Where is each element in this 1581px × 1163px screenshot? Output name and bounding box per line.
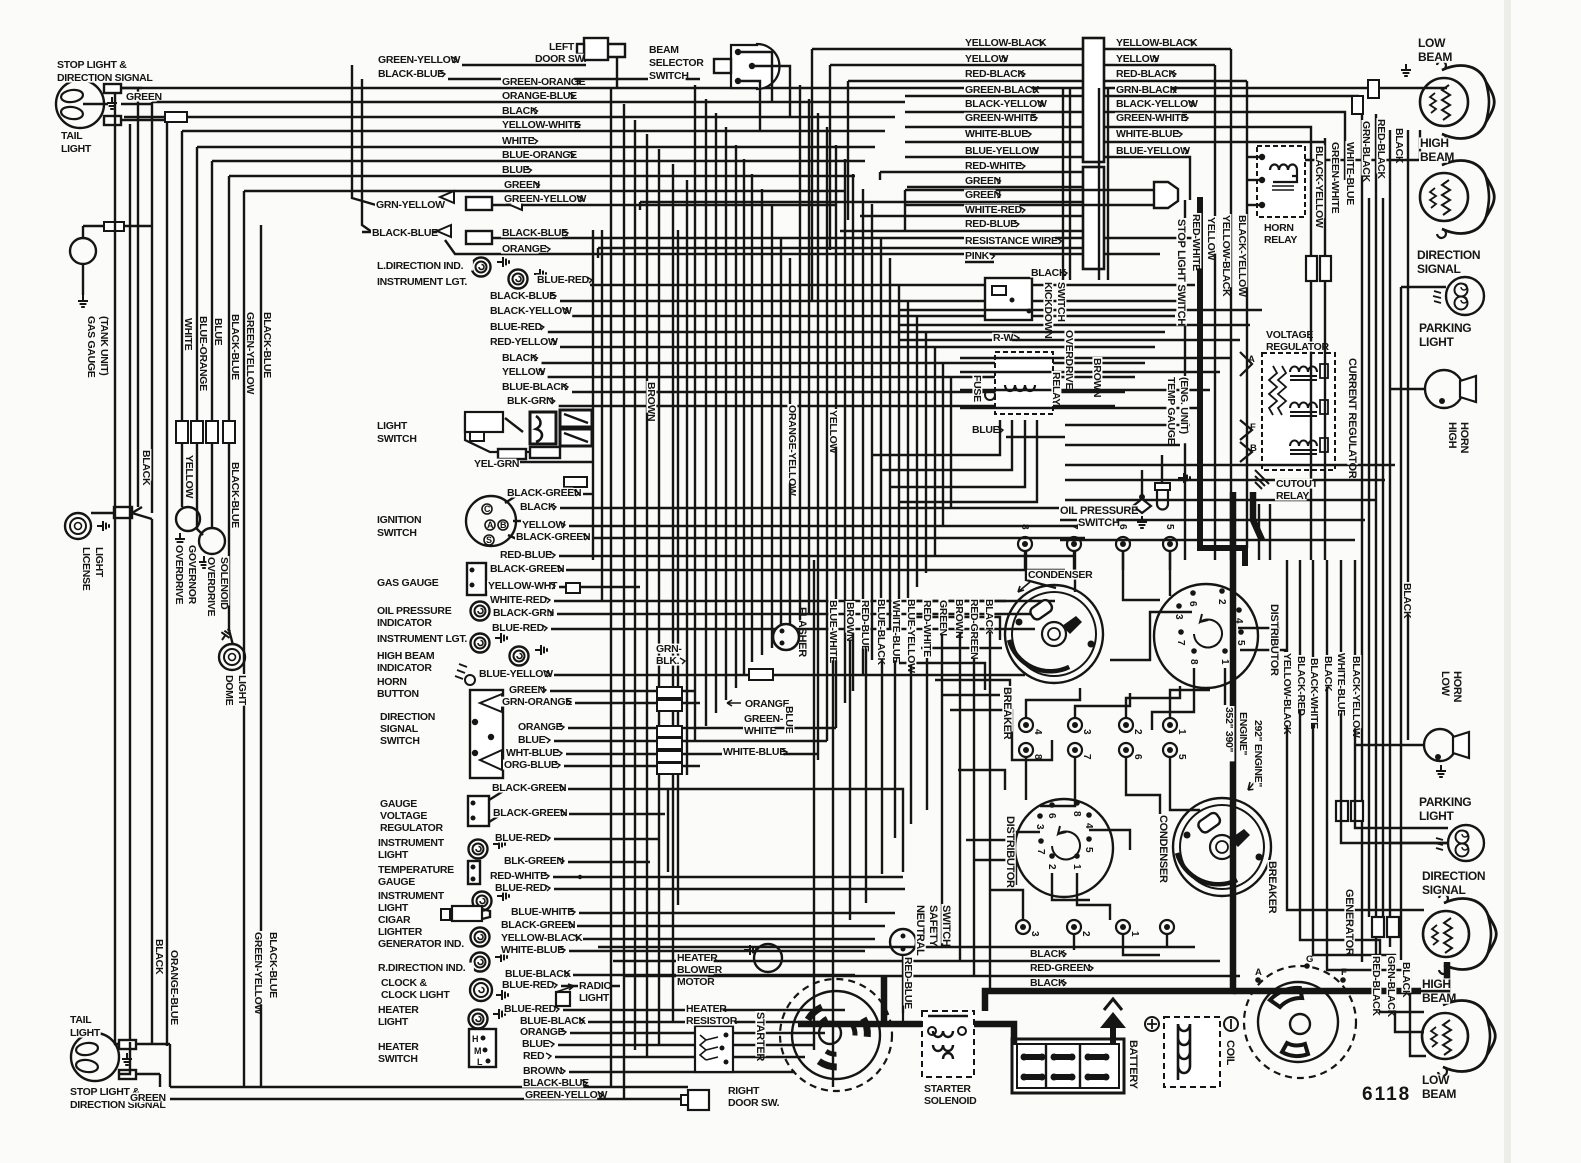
svg-text:WHITE-BLUE: WHITE-BLUE [890, 600, 902, 663]
svg-text:BLACK: BLACK [502, 105, 538, 117]
svg-text:YELLOW-BLACK: YELLOW-BLACK [1220, 215, 1232, 297]
svg-text:GRN-BLACK: GRN-BLACK [1360, 121, 1372, 183]
svg-text:ORANGE-BLUE: ORANGE-BLUE [502, 90, 577, 102]
svg-text:BLK-GRN: BLK-GRN [507, 395, 553, 407]
svg-text:OVERDRIVE: OVERDRIVE [1063, 330, 1075, 389]
svg-text:RED-BLUE: RED-BLUE [500, 549, 552, 561]
svg-text:YELLOW: YELLOW [1205, 217, 1217, 261]
svg-text:ENGINE": ENGINE" [1237, 712, 1249, 755]
svg-text:B: B [1250, 443, 1257, 454]
svg-text:OIL PRESSURE: OIL PRESSURE [1060, 505, 1138, 517]
svg-text:YELLOW: YELLOW [827, 410, 839, 454]
svg-text:BLACK-WHITE: BLACK-WHITE [1308, 658, 1320, 729]
svg-text:DOOR SW.: DOOR SW. [535, 53, 587, 65]
svg-text:(ENG. UNIT): (ENG. UNIT) [1178, 377, 1190, 434]
svg-text:LIGHT: LIGHT [378, 902, 409, 914]
svg-text:DOOR SW.: DOOR SW. [728, 1097, 780, 1109]
svg-text:BATTERY: BATTERY [1127, 1040, 1139, 1090]
svg-text:YELLOW: YELLOW [502, 366, 546, 378]
svg-text:GREEN: GREEN [126, 91, 162, 103]
svg-text:REGULATOR: REGULATOR [380, 822, 444, 834]
svg-text:GREEN-WHITE: GREEN-WHITE [965, 112, 1037, 124]
svg-text:L: L [477, 1057, 483, 1067]
svg-text:YELLOW: YELLOW [965, 53, 1009, 65]
svg-text:BLUE-RED: BLUE-RED [495, 882, 548, 894]
svg-text:SWITCH: SWITCH [377, 433, 417, 445]
svg-text:GREEN: GREEN [965, 175, 1001, 187]
svg-text:HIGH BEAM: HIGH BEAM [377, 650, 435, 662]
svg-text:OIL PRESSURE: OIL PRESSURE [377, 605, 452, 617]
svg-text:LIGHT: LIGHT [61, 143, 92, 155]
svg-text:YELLOW-BLACK: YELLOW-BLACK [1116, 37, 1198, 49]
svg-text:GAUGE: GAUGE [378, 876, 415, 888]
svg-text:STOP LIGHT &: STOP LIGHT & [57, 59, 127, 71]
svg-text:BLACK-BLUE: BLACK-BLUE [502, 227, 568, 239]
svg-text:STARTER: STARTER [924, 1083, 971, 1095]
svg-text:6: 6 [1046, 813, 1057, 819]
svg-text:BLACK-GREEN: BLACK-GREEN [516, 531, 590, 543]
svg-text:OVERDRIVE: OVERDRIVE [173, 545, 185, 604]
svg-text:HORN: HORN [1264, 222, 1294, 234]
svg-text:7: 7 [1035, 849, 1046, 855]
svg-text:GREEN-WHITE: GREEN-WHITE [1329, 142, 1341, 214]
svg-text:RED-GREEN: RED-GREEN [968, 599, 980, 659]
svg-text:GREEN-YELLOW: GREEN-YELLOW [252, 932, 264, 1015]
svg-text:BEAM: BEAM [1422, 991, 1456, 1005]
svg-text:LIGHT: LIGHT [70, 1027, 101, 1039]
svg-text:7: 7 [1081, 754, 1092, 760]
svg-text:RED-BLACK: RED-BLACK [965, 68, 1025, 80]
svg-text:BROWN: BROWN [953, 599, 965, 638]
svg-text:YELLOW-BLACK: YELLOW-BLACK [965, 37, 1047, 49]
svg-text:VOLTAGE: VOLTAGE [380, 810, 427, 822]
svg-text:BLACK-BLUE: BLACK-BLUE [267, 932, 279, 998]
svg-text:RESISTOR: RESISTOR [686, 1015, 738, 1027]
svg-text:S: S [486, 535, 492, 545]
svg-text:SOLENOID: SOLENOID [924, 1095, 977, 1107]
svg-text:2: 2 [1216, 599, 1227, 605]
svg-text:BLUE: BLUE [212, 318, 224, 346]
svg-text:SIGNAL: SIGNAL [1417, 262, 1461, 276]
svg-text:RED-WHITE: RED-WHITE [1190, 214, 1202, 271]
svg-text:GREEN: GREEN [130, 1092, 166, 1104]
svg-text:LOW: LOW [1422, 1073, 1450, 1087]
svg-text:GRN-YELLOW: GRN-YELLOW [376, 199, 445, 211]
svg-text:GREEN-YELLOW: GREEN-YELLOW [244, 312, 256, 395]
svg-text:BREAKER: BREAKER [1001, 687, 1013, 740]
svg-text:DIRECTION: DIRECTION [1422, 869, 1485, 883]
svg-text:GREEN-: GREEN- [744, 713, 784, 725]
svg-text:RED-BLUE: RED-BLUE [859, 600, 871, 652]
svg-text:H: H [472, 1034, 478, 1044]
svg-text:STARTER: STARTER [754, 1012, 766, 1061]
svg-text:BEAM: BEAM [1420, 150, 1454, 164]
svg-text:RELAY: RELAY [1264, 234, 1297, 246]
svg-text:RED-WHITE: RED-WHITE [921, 600, 933, 657]
svg-text:LIGHT: LIGHT [378, 849, 409, 861]
svg-text:ORG-BLUE: ORG-BLUE [504, 759, 558, 771]
svg-text:VOLTAGE: VOLTAGE [1266, 329, 1313, 341]
svg-text:INDICATOR: INDICATOR [377, 617, 432, 629]
svg-text:WHITE-BLUE: WHITE-BLUE [965, 128, 1028, 140]
svg-text:WHITE: WHITE [502, 135, 535, 147]
svg-text:BLUE-RED: BLUE-RED [492, 622, 545, 634]
svg-text:BREAKER: BREAKER [1266, 861, 1278, 914]
svg-text:COIL: COIL [1224, 1040, 1236, 1066]
svg-text:A: A [1248, 354, 1255, 365]
svg-text:LIGHTER: LIGHTER [378, 926, 423, 938]
svg-text:GRN-ORANGE: GRN-ORANGE [502, 696, 572, 708]
svg-text:CONDENSER: CONDENSER [1157, 815, 1169, 883]
svg-text:8: 8 [1071, 811, 1082, 817]
svg-text:GRN-: GRN- [656, 643, 682, 655]
svg-text:BLUE-RED: BLUE-RED [495, 832, 548, 844]
svg-text:RELAY: RELAY [1050, 372, 1062, 405]
svg-text:RESISTANCE WIRE: RESISTANCE WIRE [965, 235, 1058, 247]
svg-text:GENERATOR IND.: GENERATOR IND. [378, 938, 464, 950]
svg-text:GREEN-ORANGE: GREEN-ORANGE [502, 76, 586, 88]
svg-text:WHITE-BLUE: WHITE-BLUE [501, 944, 564, 956]
svg-text:SAFETY: SAFETY [927, 905, 939, 948]
svg-text:LIGHT: LIGHT [378, 1016, 409, 1028]
svg-text:ORANGE-YELLOW: ORANGE-YELLOW [786, 405, 798, 496]
svg-text:RED-BLACK: RED-BLACK [1375, 119, 1387, 179]
svg-text:SELECTOR: SELECTOR [649, 57, 704, 69]
svg-text:LIGHT: LIGHT [236, 675, 248, 706]
svg-text:BLACK-GRN: BLACK-GRN [493, 607, 554, 619]
svg-text:RED-GREEN: RED-GREEN [1030, 962, 1090, 974]
svg-text:CLOCK LIGHT: CLOCK LIGHT [381, 989, 450, 1001]
svg-text:NEUTRAL: NEUTRAL [914, 905, 926, 956]
svg-text:BLK-GREEN: BLK-GREEN [504, 855, 564, 867]
svg-text:WHITE-BLUE: WHITE-BLUE [1344, 142, 1356, 205]
svg-text:GENERATOR: GENERATOR [1343, 889, 1355, 956]
svg-text:F: F [1341, 967, 1347, 978]
svg-text:BEAM: BEAM [649, 44, 679, 56]
svg-text:BLACK: BLACK [1322, 656, 1334, 692]
svg-text:352" 390": 352" 390" [1223, 707, 1235, 753]
svg-text:YELLOW: YELLOW [522, 519, 566, 531]
svg-text:BLUE-ORANGE: BLUE-ORANGE [502, 149, 577, 161]
svg-text:RED-WHITE: RED-WHITE [965, 160, 1022, 172]
svg-text:INSTRUMENT: INSTRUMENT [378, 890, 445, 902]
svg-text:DIRECTION SIGNAL: DIRECTION SIGNAL [57, 72, 153, 84]
svg-text:SOLENOID: SOLENOID [218, 557, 230, 610]
svg-text:RED-BLACK: RED-BLACK [1370, 956, 1382, 1016]
svg-text:DISTRIBUTOR: DISTRIBUTOR [1004, 816, 1016, 888]
svg-text:RED-YELLOW: RED-YELLOW [490, 336, 558, 348]
svg-text:BLACK-BLUE: BLACK-BLUE [490, 290, 556, 302]
svg-text:YELLOW: YELLOW [183, 455, 195, 499]
svg-text:BLUE-YELLOW: BLUE-YELLOW [1116, 145, 1190, 157]
svg-text:BLUE-ORANGE: BLUE-ORANGE [197, 316, 209, 391]
svg-text:SWITCH: SWITCH [380, 735, 420, 747]
svg-text:BLACK-BLUE: BLACK-BLUE [523, 1077, 589, 1089]
svg-text:BLACK-GREEN: BLACK-GREEN [490, 563, 564, 575]
svg-text:YELLOW-WHT: YELLOW-WHT [488, 580, 558, 592]
svg-text:ORANGE: ORANGE [745, 698, 790, 710]
svg-text:HORN: HORN [1458, 422, 1470, 454]
svg-text:GAUGE: GAUGE [380, 798, 417, 810]
svg-text:CONDENSER: CONDENSER [1028, 569, 1093, 581]
svg-text:GREEN-YELLOW: GREEN-YELLOW [504, 193, 587, 205]
svg-text:BLACK-GREEN: BLACK-GREEN [501, 919, 575, 931]
svg-text:6: 6 [1132, 754, 1143, 760]
svg-text:292" ENGINE": 292" ENGINE" [1252, 720, 1264, 787]
svg-text:BLUE-RED: BLUE-RED [490, 321, 543, 333]
svg-text:BLACK: BLACK [153, 939, 165, 975]
svg-text:GAS GAUGE: GAS GAUGE [377, 577, 439, 589]
svg-text:BLACK-GREEN: BLACK-GREEN [507, 487, 581, 499]
svg-text:CIGAR: CIGAR [378, 914, 411, 926]
svg-text:RELAY: RELAY [1276, 490, 1309, 502]
svg-text:ORANGE: ORANGE [502, 243, 547, 255]
svg-text:HORN: HORN [377, 676, 407, 688]
svg-text:RED-BLACK: RED-BLACK [1116, 68, 1176, 80]
svg-text:GAS GAUGE: GAS GAUGE [85, 316, 97, 378]
svg-text:1: 1 [1129, 931, 1140, 937]
svg-text:BLACK-YELLOW: BLACK-YELLOW [1116, 98, 1198, 110]
svg-text:(TANK UNIT): (TANK UNIT) [98, 316, 110, 376]
svg-text:BLUE: BLUE [522, 1038, 550, 1050]
svg-text:HEATER: HEATER [378, 1004, 419, 1016]
svg-text:BLUE-WHITE: BLUE-WHITE [511, 906, 574, 918]
svg-text:DIRECTION: DIRECTION [380, 711, 435, 723]
svg-text:RADIO: RADIO [579, 980, 611, 992]
svg-text:BLACK-GREEN: BLACK-GREEN [492, 782, 566, 794]
svg-text:C: C [484, 504, 491, 514]
svg-text:BEAM: BEAM [1418, 50, 1452, 64]
svg-text:ORANGE-BLUE: ORANGE-BLUE [168, 950, 180, 1025]
svg-text:DOME: DOME [223, 675, 235, 706]
svg-text:R.DIRECTION IND.: R.DIRECTION IND. [378, 962, 466, 974]
svg-text:BLACK: BLACK [1401, 583, 1413, 619]
svg-text:BROWN: BROWN [645, 382, 657, 421]
svg-text:HIGH: HIGH [1446, 422, 1458, 449]
svg-text:BLACK: BLACK [520, 501, 556, 513]
svg-text:B: B [500, 520, 507, 530]
svg-text:BROWN: BROWN [1091, 358, 1103, 397]
svg-text:2: 2 [1080, 931, 1091, 937]
svg-text:SWITCH: SWITCH [649, 70, 689, 82]
svg-text:BLOWER: BLOWER [677, 964, 723, 976]
svg-text:ORANGE: ORANGE [520, 1026, 565, 1038]
svg-text:KICKDOWN: KICKDOWN [1042, 282, 1054, 339]
svg-text:DISTRIBUTOR: DISTRIBUTOR [1268, 604, 1280, 676]
svg-text:LOW: LOW [1418, 36, 1446, 50]
svg-text:HIGH: HIGH [1420, 136, 1449, 150]
svg-text:BLUE: BLUE [783, 706, 795, 734]
svg-text:5: 5 [1235, 640, 1246, 646]
svg-text:BLACK-BLUE: BLACK-BLUE [229, 462, 241, 528]
svg-text:M: M [474, 1046, 481, 1056]
svg-text:BLACK-BLUE: BLACK-BLUE [261, 312, 273, 378]
svg-text:8: 8 [1188, 659, 1199, 665]
svg-text:L.DIRECTION IND.: L.DIRECTION IND. [377, 260, 464, 272]
svg-text:YELLOW-BLACK: YELLOW-BLACK [1281, 653, 1293, 735]
svg-text:3: 3 [1081, 729, 1092, 735]
svg-text:PARKING: PARKING [1419, 321, 1471, 335]
svg-text:RED-BLUE: RED-BLUE [965, 218, 1017, 230]
svg-text:5: 5 [1176, 754, 1187, 760]
svg-text:G: G [1306, 954, 1313, 965]
svg-text:BLUE-BLACK: BLUE-BLACK [875, 599, 887, 666]
svg-text:SWITCH: SWITCH [378, 1053, 418, 1065]
svg-text:1: 1 [1071, 864, 1082, 870]
svg-text:RED-BLUE: RED-BLUE [902, 957, 914, 1009]
svg-text:BLACK-YELLOW: BLACK-YELLOW [490, 305, 572, 317]
svg-text:BLACK-GREEN: BLACK-GREEN [493, 807, 567, 819]
svg-text:R-W: R-W [993, 332, 1013, 344]
svg-text:1: 1 [1176, 729, 1187, 735]
svg-text:2: 2 [1046, 864, 1057, 870]
svg-text:8: 8 [1019, 524, 1030, 530]
svg-text:WHITE-RED: WHITE-RED [490, 594, 548, 606]
svg-text:BLACK: BLACK [1030, 977, 1066, 989]
svg-text:PINK: PINK [965, 250, 990, 262]
svg-text:6: 6 [1117, 524, 1128, 530]
svg-text:CLOCK &: CLOCK & [381, 977, 427, 989]
svg-text:INSTRUMENT: INSTRUMENT [378, 837, 445, 849]
svg-text:2: 2 [1132, 729, 1143, 735]
svg-text:BUTTON: BUTTON [377, 688, 419, 700]
svg-text:BLACK: BLACK [1400, 962, 1412, 998]
svg-text:GREEN-YELLOW: GREEN-YELLOW [525, 1089, 608, 1101]
svg-text:8: 8 [1032, 754, 1043, 760]
svg-text:LIGHT: LIGHT [1419, 335, 1454, 349]
svg-text:BLACK: BLACK [502, 352, 538, 364]
svg-text:SWITCH: SWITCH [1055, 282, 1067, 322]
svg-text:BLACK-RED: BLACK-RED [1295, 656, 1307, 716]
svg-text:OVERDRIVE: OVERDRIVE [205, 557, 217, 616]
svg-text:RED: RED [523, 1050, 545, 1062]
svg-text:BLK.: BLK. [656, 655, 680, 667]
svg-text:YEL-GRN: YEL-GRN [474, 458, 519, 470]
svg-text:CURRENT REGULATOR: CURRENT REGULATOR [1346, 358, 1358, 479]
svg-text:BLACK: BLACK [1393, 128, 1405, 164]
svg-text:DIRECTION: DIRECTION [1417, 248, 1480, 262]
svg-text:BEAM: BEAM [1422, 1087, 1456, 1101]
svg-text:IGNITION: IGNITION [377, 514, 421, 526]
svg-text:5: 5 [1164, 524, 1175, 530]
svg-text:6118: 6118 [1362, 1084, 1411, 1105]
svg-text:SIGNAL: SIGNAL [1422, 883, 1466, 897]
svg-text:INDICATOR: INDICATOR [377, 662, 432, 674]
svg-text:YELLOW: YELLOW [1116, 53, 1160, 65]
svg-text:GREEN: GREEN [965, 189, 1001, 201]
svg-text:SIGNAL: SIGNAL [380, 723, 419, 735]
svg-text:GREEN: GREEN [509, 684, 545, 696]
svg-text:BLUE-RED: BLUE-RED [502, 979, 555, 991]
svg-text:BLUE-YELLOW: BLUE-YELLOW [905, 599, 917, 673]
svg-text:HEATER: HEATER [686, 1003, 727, 1015]
svg-text:HIGH: HIGH [1422, 977, 1451, 991]
svg-text:BLUE: BLUE [518, 734, 546, 746]
svg-text:BLACK-YELLOW: BLACK-YELLOW [965, 98, 1047, 110]
svg-text:GREEN-YELLOW: GREEN-YELLOW [378, 54, 461, 66]
svg-text:BLACK: BLACK [140, 450, 152, 486]
svg-text:4: 4 [1083, 823, 1094, 829]
svg-text:BLACK-YELLOW: BLACK-YELLOW [1350, 656, 1362, 738]
svg-text:WHITE-BLUE: WHITE-BLUE [1116, 128, 1179, 140]
svg-text:GOVERNOR: GOVERNOR [186, 545, 198, 605]
svg-text:TEMPERATURE: TEMPERATURE [378, 864, 454, 876]
svg-text:BLUE-WHITE: BLUE-WHITE [827, 600, 839, 663]
svg-text:TAIL: TAIL [61, 130, 83, 142]
svg-text:BROWN: BROWN [844, 602, 856, 641]
svg-text:LEFT: LEFT [549, 41, 575, 53]
svg-text:5: 5 [1083, 847, 1094, 853]
svg-text:HEATER: HEATER [677, 952, 718, 964]
svg-text:BLACK-BLUE: BLACK-BLUE [372, 227, 438, 239]
svg-text:TEMP GAUGE: TEMP GAUGE [1165, 377, 1177, 445]
svg-text:PARKING: PARKING [1419, 795, 1471, 809]
svg-text:WHITE-BLUE: WHITE-BLUE [723, 746, 786, 758]
svg-text:BLACK-YELLOW: BLACK-YELLOW [1236, 215, 1248, 297]
svg-text:LICENSE: LICENSE [80, 547, 92, 591]
svg-text:BLUE-RED: BLUE-RED [504, 1003, 557, 1015]
svg-text:WHT-BLUE: WHT-BLUE [506, 747, 559, 759]
svg-text:BLACK: BLACK [1031, 267, 1067, 279]
svg-text:3: 3 [1029, 931, 1040, 937]
svg-text:WHITE: WHITE [182, 318, 194, 351]
svg-text:BLUE-YELLOW: BLUE-YELLOW [479, 668, 553, 680]
svg-text:BLACK: BLACK [1030, 948, 1066, 960]
svg-text:INSTRUMENT LGT.: INSTRUMENT LGT. [377, 276, 467, 288]
svg-text:BLACK-YELLOW: BLACK-YELLOW [1313, 146, 1325, 228]
svg-text:FUSE: FUSE [971, 375, 983, 402]
svg-text:A: A [1255, 967, 1262, 978]
svg-text:3: 3 [1034, 824, 1045, 830]
svg-text:GREEN-BLACK: GREEN-BLACK [965, 84, 1040, 96]
svg-text:LOW: LOW [1439, 671, 1451, 697]
svg-text:BLACK-BLUE: BLACK-BLUE [378, 68, 444, 80]
svg-text:BLUE-BLACK: BLUE-BLACK [502, 381, 569, 393]
svg-text:GRN-BLACK: GRN-BLACK [1116, 84, 1178, 96]
svg-text:SWITCH: SWITCH [940, 905, 952, 947]
svg-text:WHITE-RED: WHITE-RED [965, 204, 1023, 216]
svg-text:TAIL: TAIL [70, 1014, 92, 1026]
svg-text:ORANGE: ORANGE [518, 721, 563, 733]
svg-text:BLUE: BLUE [972, 424, 1000, 436]
svg-text:BLACK: BLACK [983, 599, 995, 635]
svg-text:YELLOW-BLACK: YELLOW-BLACK [501, 932, 583, 944]
svg-text:FLASHER: FLASHER [796, 607, 808, 657]
svg-text:STOP LIGHT SWITCH: STOP LIGHT SWITCH [1175, 219, 1187, 326]
svg-text:GREEN-WHITE: GREEN-WHITE [1116, 112, 1188, 124]
svg-text:REGULATOR: REGULATOR [1266, 341, 1330, 353]
svg-text:WHITE-BLUE: WHITE-BLUE [1335, 653, 1347, 716]
svg-text:YELLOW-WHITE: YELLOW-WHITE [502, 119, 581, 131]
svg-text:GRN-BLACK: GRN-BLACK [1385, 956, 1397, 1018]
svg-text:4: 4 [1032, 729, 1043, 735]
svg-text:BLUE-RED: BLUE-RED [537, 274, 590, 286]
svg-text:LIGHT: LIGHT [93, 547, 105, 578]
svg-text:1: 1 [1219, 659, 1230, 665]
svg-text:HEATER: HEATER [378, 1041, 419, 1053]
svg-text:RIGHT: RIGHT [728, 1085, 760, 1097]
svg-text:7: 7 [1175, 640, 1186, 646]
svg-text:3: 3 [1173, 614, 1184, 620]
svg-text:4: 4 [1233, 618, 1244, 624]
svg-text:BLUE: BLUE [502, 164, 530, 176]
svg-text:GREEN: GREEN [937, 600, 949, 636]
svg-text:BLUE-YELLOW: BLUE-YELLOW [965, 145, 1039, 157]
svg-text:GREEN: GREEN [504, 179, 540, 191]
svg-text:7: 7 [1068, 524, 1079, 530]
svg-text:CUTOUT: CUTOUT [1276, 478, 1319, 490]
svg-text:LIGHT: LIGHT [579, 992, 610, 1004]
